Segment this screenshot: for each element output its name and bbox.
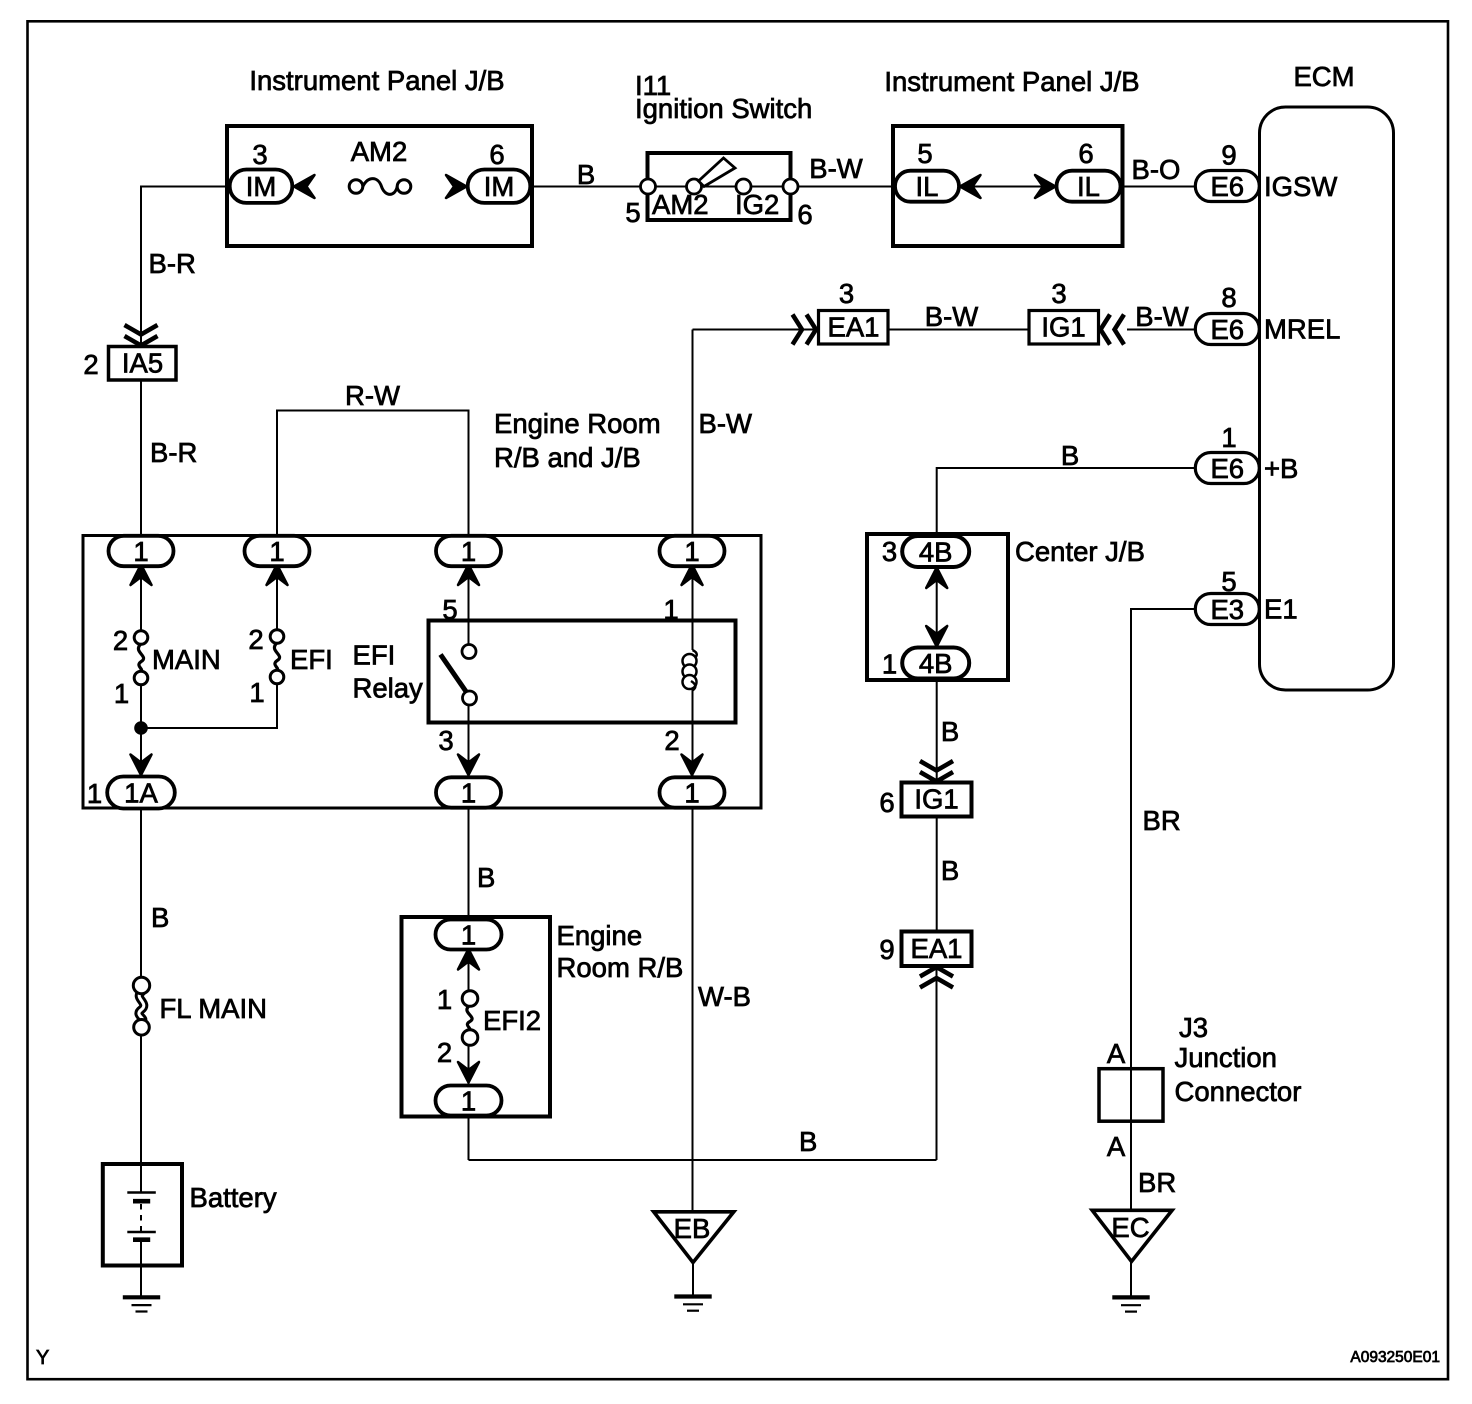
svg-text:Engine Room: Engine Room <box>494 408 661 439</box>
arrow into IL(6) <box>1035 175 1056 198</box>
svg-text:B-W: B-W <box>809 153 863 184</box>
svg-text:1: 1 <box>249 677 264 708</box>
EFI relay coil <box>693 650 697 659</box>
svg-text:Instrument Panel J/B: Instrument Panel J/B <box>884 66 1139 97</box>
up arrow in Center J/B <box>926 568 947 589</box>
svg-text:2: 2 <box>248 624 263 655</box>
svg-text:1: 1 <box>684 536 699 567</box>
connector EA1 box (MREL row) <box>819 311 889 345</box>
svg-text:6: 6 <box>1078 138 1093 169</box>
svg-text:8: 8 <box>1221 282 1236 313</box>
wire: battery to ground <box>140 1240 142 1297</box>
svg-text:B-W: B-W <box>699 408 753 439</box>
wire: EFI fuse pin1 jog to junction <box>141 684 277 728</box>
Center J/B box <box>867 534 1008 680</box>
svg-text:1: 1 <box>114 678 129 709</box>
wire: IG1 chevrons to ECM E6 MREL <box>1127 329 1196 331</box>
svg-text:Room R/B: Room R/B <box>557 952 684 983</box>
ignition switch lever <box>699 158 736 187</box>
svg-text:1: 1 <box>461 1085 476 1116</box>
I11 ignition switch box <box>648 153 791 220</box>
fuse AM2 <box>349 180 363 194</box>
wire: IA5 down through Engine Room J/B col1, MAIN fuse, 1A, to FL MAIN <box>140 380 142 631</box>
wire: ignition switch internal <box>648 186 791 188</box>
connector IA5 box <box>109 347 177 381</box>
svg-text:B-O: B-O <box>1132 154 1181 185</box>
svg-text:B-W: B-W <box>925 301 979 332</box>
svg-text:1: 1 <box>684 777 699 808</box>
connector IG1 box (MREL row) <box>1029 311 1099 345</box>
svg-text:B: B <box>941 855 959 886</box>
svg-text:3: 3 <box>1051 278 1066 309</box>
wire: battery dashed cell link <box>140 1204 142 1231</box>
connector IG1 box (center column) <box>902 783 972 817</box>
arrow into IM(6) <box>446 175 467 198</box>
EFI relay switch blade <box>441 655 467 692</box>
arrow into IM(3) <box>294 175 315 198</box>
down arrow in EFI2 box <box>458 1062 479 1083</box>
svg-text:5: 5 <box>1221 566 1236 597</box>
arrow into IL(5) <box>960 175 981 198</box>
wire: ignition switch to IL(5) box <box>791 186 894 188</box>
svg-text:3: 3 <box>839 278 854 309</box>
wire: EB triangle tip to ground <box>692 1263 694 1297</box>
EFI Relay box <box>429 621 736 723</box>
svg-text:3: 3 <box>252 139 267 170</box>
svg-text:E3: E3 <box>1210 594 1244 625</box>
svg-text:E6: E6 <box>1210 453 1244 484</box>
svg-text:9: 9 <box>879 934 894 965</box>
svg-text:EFI2: EFI2 <box>483 1005 541 1036</box>
svg-text:E1: E1 <box>1264 594 1298 625</box>
svg-text:R-W: R-W <box>345 380 400 411</box>
oval E3 E1 <box>1195 594 1259 625</box>
svg-text:9: 9 <box>1221 140 1236 171</box>
battery cells <box>127 1191 156 1194</box>
oval 1 EFI2 top <box>436 920 502 950</box>
wire: bottom B wire EFI2 to EA1 column <box>469 1159 937 1161</box>
svg-text:4B: 4B <box>919 648 953 679</box>
Engine Room R/B and J/B box <box>83 536 761 809</box>
svg-text:EFI: EFI <box>353 640 396 671</box>
oval 4B bottom <box>902 648 969 679</box>
oval 1 col3 top <box>436 536 501 566</box>
svg-text:Y: Y <box>36 1347 49 1369</box>
svg-text:2: 2 <box>83 349 98 380</box>
svg-text:5: 5 <box>442 594 457 625</box>
svg-text:E6: E6 <box>1210 314 1244 345</box>
EFI relay switch contacts <box>462 645 476 659</box>
svg-text:4B: 4B <box>919 536 953 567</box>
svg-text:B-R: B-R <box>149 248 196 279</box>
down arrow in Center J/B <box>926 626 947 647</box>
junction dot <box>134 721 148 735</box>
Instrument Panel J/B box (left) <box>227 126 532 246</box>
svg-text:EFI: EFI <box>290 644 333 675</box>
wire: EA1 to IG1 <box>888 329 1029 331</box>
svg-text:1: 1 <box>882 649 897 680</box>
Instrument Panel J/B box (right) <box>893 126 1123 246</box>
svg-text:5: 5 <box>625 197 640 228</box>
svg-text:Connector: Connector <box>1175 1076 1302 1107</box>
svg-text:IG1: IG1 <box>1041 311 1085 342</box>
svg-text:1: 1 <box>461 919 476 950</box>
wire: IM(6) to ignition switch <box>533 186 649 188</box>
up arrow in EFI2 box <box>458 949 479 970</box>
oval 1 col4 top <box>660 536 725 566</box>
oval 1 col3 bottom <box>436 777 501 807</box>
svg-text:B: B <box>151 902 169 933</box>
wire: EFI2 fuse to bottom B wire <box>468 1046 470 1161</box>
svg-text:EA1: EA1 <box>911 933 963 964</box>
svg-text:3: 3 <box>438 725 453 756</box>
ignition switch terminals <box>641 179 656 194</box>
oval E6 +B <box>1195 453 1259 484</box>
oval IM pin6 <box>468 170 531 203</box>
svg-text:J3: J3 <box>1179 1012 1208 1043</box>
svg-text:1: 1 <box>437 984 452 1015</box>
svg-text:3: 3 <box>882 536 897 567</box>
wire: col3 relay switch pin5/pin3 through EFI2 box <box>468 568 470 645</box>
wire: EC triangle tip to ground <box>1130 1262 1132 1297</box>
svg-text:1: 1 <box>1221 422 1236 453</box>
oval 1 col2 top <box>245 536 310 566</box>
wire: R-W loop from EFI fuse col2 up over to col3 <box>277 411 469 569</box>
wire: ECM E6 +B left then down to Center J/B <box>937 468 1196 537</box>
svg-text:IM: IM <box>484 171 515 202</box>
svg-text:1: 1 <box>87 778 102 809</box>
splice chevrons left-pointing after IG1 <box>1101 315 1111 345</box>
svg-text:FL MAIN: FL MAIN <box>160 993 267 1024</box>
svg-text:IL: IL <box>1077 171 1100 202</box>
wire: col4 relay coil column down W-B to EB <box>692 568 694 650</box>
svg-text:Instrument Panel J/B: Instrument Panel J/B <box>249 65 504 96</box>
svg-text:AM2: AM2 <box>351 136 408 167</box>
connector EA1 box (center column) <box>902 932 972 967</box>
svg-text:1: 1 <box>269 536 284 567</box>
svg-text:B: B <box>1061 440 1079 471</box>
wire: ECM E3 E1 left then down BR to J3 and EC <box>1131 609 1196 1211</box>
svg-text:6: 6 <box>879 787 894 818</box>
svg-text:Ignition Switch: Ignition Switch <box>635 93 812 124</box>
svg-text:EA1: EA1 <box>828 311 880 342</box>
wire: MREL corner down B-W to Engine Room J/B col4 <box>692 330 694 569</box>
fuse EFI <box>274 643 279 671</box>
svg-text:ECM: ECM <box>1293 61 1354 92</box>
svg-text:2: 2 <box>664 725 679 756</box>
splice chevrons above center IG1 <box>920 761 953 771</box>
oval 1A bottom <box>107 777 175 809</box>
svg-text:AM2: AM2 <box>652 189 709 220</box>
oval 1 col1 top <box>109 536 174 566</box>
svg-text:Center J/B: Center J/B <box>1015 536 1145 567</box>
fuse EFI2 <box>467 1006 472 1031</box>
splice chevrons below center EA1 <box>920 967 953 977</box>
wire: col2 EFI fuse segments <box>276 568 278 630</box>
splice chevrons right-pointing before EA1 <box>793 315 803 345</box>
oval E6 MREL <box>1195 314 1259 345</box>
wire: IL(6) to ECM E6 IGSW <box>1123 186 1197 188</box>
svg-text:B: B <box>941 716 959 747</box>
splice chevrons above IA5 <box>125 325 158 335</box>
svg-text:B-R: B-R <box>150 437 197 468</box>
ground EC triangle <box>1092 1210 1172 1261</box>
oval IL pin6 <box>1057 171 1121 202</box>
svg-text:+B: +B <box>1264 453 1298 484</box>
svg-text:MREL: MREL <box>1264 314 1340 345</box>
svg-text:Engine: Engine <box>557 920 643 951</box>
oval 1 EFI2 bottom <box>436 1086 502 1116</box>
svg-text:5: 5 <box>917 138 932 169</box>
Engine Room R/B (EFI2) box <box>402 917 551 1117</box>
svg-text:2: 2 <box>437 1037 452 1068</box>
oval IM pin3 <box>230 170 293 203</box>
svg-text:EC: EC <box>1111 1212 1149 1243</box>
ground EB triangle <box>654 1212 734 1263</box>
svg-text:IM: IM <box>246 171 277 202</box>
oval IL pin5 <box>895 171 959 202</box>
svg-text:1: 1 <box>663 594 678 625</box>
battery ground <box>123 1295 160 1299</box>
wire: IM(3) to left column corner, down to IA5 splice <box>141 187 228 347</box>
svg-text:IA5: IA5 <box>122 347 163 378</box>
svg-text:B: B <box>577 159 595 190</box>
wire: Center J/B column down through IG1 EA1 <box>936 537 938 680</box>
svg-text:A: A <box>1107 1131 1126 1162</box>
down arrows in Engine Room J/B bottom row <box>131 755 152 776</box>
svg-text:1: 1 <box>133 536 148 567</box>
svg-text:MAIN: MAIN <box>152 644 221 675</box>
fusible link FL MAIN <box>139 992 144 1021</box>
svg-text:IL: IL <box>916 171 939 202</box>
svg-text:1A: 1A <box>124 777 158 808</box>
svg-text:W-B: W-B <box>698 981 751 1012</box>
svg-text:A093250E01: A093250E01 <box>1350 1349 1440 1366</box>
svg-text:Relay: Relay <box>353 673 424 704</box>
svg-text:B: B <box>799 1126 817 1157</box>
svg-text:1: 1 <box>461 777 476 808</box>
svg-text:BR: BR <box>1143 805 1181 836</box>
svg-text:A: A <box>1107 1038 1126 1069</box>
svg-text:R/B and J/B: R/B and J/B <box>494 442 641 473</box>
up arrows in Engine Room J/B top row <box>131 565 152 586</box>
ECM box <box>1260 107 1394 690</box>
svg-text:Battery: Battery <box>190 1182 277 1213</box>
J3 junction connector box <box>1099 1069 1163 1122</box>
svg-text:BR: BR <box>1138 1167 1176 1198</box>
svg-text:EB: EB <box>674 1213 711 1244</box>
oval E6 IGSW <box>1195 171 1259 202</box>
svg-text:E6: E6 <box>1210 171 1244 202</box>
svg-text:B: B <box>477 862 495 893</box>
wire: MREL corner to EA1 <box>693 329 819 331</box>
oval 1 col4 bottom <box>660 777 725 807</box>
oval 4B top <box>902 536 969 567</box>
svg-text:IG2: IG2 <box>735 189 779 220</box>
svg-text:6: 6 <box>489 139 504 170</box>
svg-text:B-W: B-W <box>1135 301 1189 332</box>
svg-text:2: 2 <box>113 625 128 656</box>
Battery box <box>103 1164 182 1266</box>
svg-text:IG1: IG1 <box>914 783 958 814</box>
svg-text:Junction: Junction <box>1175 1042 1277 1073</box>
svg-text:1: 1 <box>461 536 476 567</box>
wire: between IL ovals <box>959 186 1057 188</box>
wire: FL MAIN to battery <box>140 1035 142 1193</box>
fuse MAIN <box>138 644 143 672</box>
svg-text:6: 6 <box>797 199 812 230</box>
svg-text:IGSW: IGSW <box>1264 171 1337 202</box>
